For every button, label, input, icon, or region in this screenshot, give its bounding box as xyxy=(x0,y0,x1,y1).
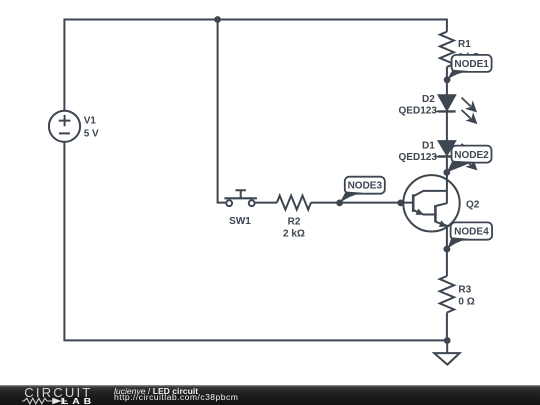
svg-text:NODE4: NODE4 xyxy=(454,227,489,238)
D1 light arrow upper xyxy=(462,144,477,158)
CircuitLab logo text LAB xyxy=(62,397,95,405)
resistor R1 xyxy=(440,32,454,67)
junction node ground xyxy=(444,337,451,344)
label R2 value xyxy=(283,217,305,240)
label V1 value xyxy=(84,116,99,140)
CircuitLab logo resistor-diode glyph xyxy=(22,397,69,405)
LED D2 xyxy=(435,95,456,111)
D1 light arrow lower xyxy=(462,156,477,170)
resistor R2 xyxy=(277,196,311,210)
LED D1 xyxy=(435,141,456,157)
voltage source V1 xyxy=(49,111,80,142)
footer title xyxy=(114,386,198,396)
footer url xyxy=(114,392,238,402)
svg-text:0 Ω: 0 Ω xyxy=(458,297,474,308)
svg-text:QED123: QED123 xyxy=(399,106,438,117)
label D2 value xyxy=(399,94,438,116)
svg-text:R2: R2 xyxy=(288,217,301,228)
svg-text:QED123: QED123 xyxy=(399,152,438,163)
wire R2 to Q2 base xyxy=(311,202,401,204)
resistor R3 xyxy=(440,276,454,312)
svg-text:2 kΩ: 2 kΩ xyxy=(283,229,305,240)
wire SW1 to R2 xyxy=(255,202,277,204)
wire Q2 emitter to R3 xyxy=(446,226,448,276)
CircuitLab logo text CIRCUIT xyxy=(24,385,92,400)
wire D2 to D1 xyxy=(446,112,448,141)
svg-text:D2: D2 xyxy=(422,94,435,105)
transistor Q2 (Darlington) xyxy=(401,172,460,231)
junction node NODE2 xyxy=(443,169,450,176)
svg-text:R1: R1 xyxy=(458,39,471,50)
svg-text:NODE1: NODE1 xyxy=(454,59,489,70)
D2 light arrow upper xyxy=(462,98,477,112)
wire top rail xyxy=(64,20,447,111)
wire left rail V1 bottom to bottom rail xyxy=(64,142,448,341)
junction node NODE1 xyxy=(444,76,451,83)
label R3 value xyxy=(458,285,474,308)
junction node top rail xyxy=(214,16,221,23)
svg-text:R3: R3 xyxy=(458,285,471,296)
wire middle branch vertical xyxy=(218,20,227,203)
footer bar xyxy=(0,385,540,405)
node flag NODE3 xyxy=(340,177,385,203)
wire R3 to ground node xyxy=(446,313,448,342)
junction node Q2 base xyxy=(397,200,404,207)
switch SW1 xyxy=(224,190,257,206)
wire D1 to Q2 collector xyxy=(446,158,448,176)
svg-text:SW1: SW1 xyxy=(229,216,251,227)
svg-text:V1: V1 xyxy=(84,116,97,127)
svg-text:NODE2: NODE2 xyxy=(454,150,489,161)
wire R1 to NODE1 node xyxy=(446,67,448,95)
svg-text:5 V: 5 V xyxy=(84,129,99,140)
D2 light arrow lower xyxy=(462,110,477,124)
ground xyxy=(434,341,459,365)
node flag NODE1 xyxy=(447,55,492,80)
svg-text:D1: D1 xyxy=(422,140,435,151)
node flag NODE4 xyxy=(447,222,492,249)
svg-text:Q2: Q2 xyxy=(466,199,480,210)
label D1 value xyxy=(399,140,438,162)
node flag NODE2 xyxy=(447,146,492,173)
junction node NODE4 xyxy=(444,246,451,253)
svg-text:NODE3: NODE3 xyxy=(348,181,383,192)
junction node NODE3 xyxy=(336,200,343,207)
